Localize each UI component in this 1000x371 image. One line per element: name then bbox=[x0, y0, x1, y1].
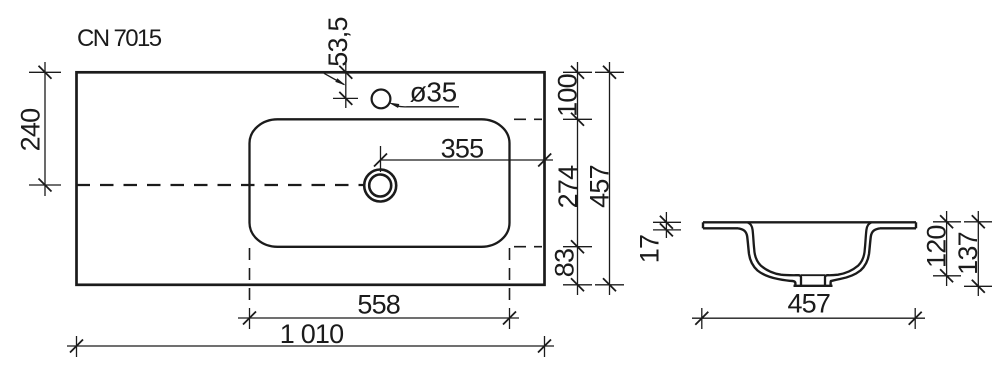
dimension 355 tick left bbox=[374, 154, 387, 167]
svg-text:274: 274 bbox=[553, 165, 583, 208]
drain inner circle bbox=[369, 175, 391, 197]
tick at countertop top bbox=[563, 71, 592, 73]
tick 457 top bbox=[595, 71, 624, 73]
dimension 137 line bbox=[977, 211, 979, 296]
dashed extension below basin left bbox=[249, 248, 251, 308]
faucet leader arrowhead bbox=[388, 103, 399, 109]
side view right flange underside bbox=[880, 227, 916, 229]
tick 558 left bbox=[249, 308, 251, 329]
dashed centerline to drain bbox=[77, 184, 364, 186]
dimension 1010 line bbox=[67, 345, 554, 347]
dimension 53,5 tick bottom bbox=[333, 97, 358, 99]
drain outer circle bbox=[364, 170, 396, 202]
side view inner bowl right bbox=[825, 222, 872, 285]
tick 457 bottom bbox=[595, 284, 624, 286]
side view right end cap bbox=[915, 222, 917, 228]
svg-text:240: 240 bbox=[16, 109, 46, 152]
tick side 457 left bbox=[701, 308, 703, 329]
svg-text:53,5: 53,5 bbox=[323, 17, 353, 66]
tick 1010 left bbox=[76, 336, 78, 357]
dashed extension right of basin top bbox=[514, 118, 542, 120]
svg-text:17: 17 bbox=[635, 235, 665, 263]
dimension 53,5 tick top bbox=[339, 66, 352, 79]
tick at countertop bottom bbox=[563, 284, 592, 286]
side view outer bowl left bbox=[738, 228, 795, 285]
countertop outline (top view) bbox=[77, 72, 545, 284]
svg-text:1 010: 1 010 bbox=[280, 319, 344, 349]
svg-text:457: 457 bbox=[787, 289, 830, 319]
dimension 53,5 line bbox=[345, 63, 347, 108]
side view inner bowl left bbox=[748, 222, 802, 285]
svg-text:100: 100 bbox=[553, 74, 583, 117]
tick side 457 right bbox=[914, 308, 916, 329]
dashed extension right of basin bottom bbox=[514, 246, 542, 248]
faucet hole bbox=[372, 90, 391, 109]
svg-text:137: 137 bbox=[953, 232, 983, 275]
tick 558 right bbox=[509, 308, 511, 329]
side view flange top bbox=[703, 221, 916, 223]
dashed extension below basin right bbox=[509, 248, 511, 308]
dimension 120 line bbox=[946, 211, 948, 286]
dimension 17 line bbox=[665, 212, 667, 238]
svg-text:355: 355 bbox=[441, 134, 484, 164]
svg-text:558: 558 bbox=[357, 290, 400, 320]
side view left flange underside bbox=[703, 227, 738, 229]
dimension 355 tick right bbox=[544, 150, 546, 170]
side view foot bottom bbox=[794, 285, 833, 287]
dimension 17 tick bottom bbox=[653, 229, 681, 231]
dimension 137 tick bottom bbox=[964, 285, 992, 287]
side view left end cap bbox=[702, 222, 704, 228]
basin rounded rectangle (top view) bbox=[250, 119, 510, 247]
svg-text:457: 457 bbox=[585, 165, 615, 208]
tick 1010 right bbox=[544, 336, 546, 357]
dimension 558 line bbox=[238, 317, 519, 319]
dimension 137 tick top bbox=[964, 221, 992, 223]
tick at basin bottom bbox=[563, 246, 592, 248]
dimension 17 tick top bbox=[653, 221, 681, 223]
dimension 53,5 arrow bbox=[324, 73, 344, 84]
svg-text:83: 83 bbox=[550, 249, 580, 277]
faucet leader line bbox=[396, 106, 459, 107]
right dimension line (100/274/83) bbox=[577, 62, 579, 295]
dimension 457 line (side view) bbox=[692, 317, 925, 319]
dimension 240 tick top bbox=[29, 71, 61, 73]
dimension 240 line bbox=[44, 62, 46, 196]
dimension 355 extension at drain bbox=[380, 146, 382, 172]
dimension 120 tick top bbox=[933, 221, 961, 223]
svg-text:120: 120 bbox=[922, 225, 952, 268]
dimension 240 tick bottom bbox=[29, 184, 61, 186]
tick at basin top bbox=[563, 118, 592, 120]
svg-text:CN 7015: CN 7015 bbox=[77, 25, 162, 52]
side view outer bowl right bbox=[831, 228, 880, 285]
side view foot top line bbox=[801, 274, 825, 276]
dimension 355 line bbox=[381, 159, 554, 161]
dimension 457 line (top view) bbox=[609, 62, 611, 295]
dimension 120 tick bottom bbox=[933, 275, 961, 277]
svg-text:ø35: ø35 bbox=[410, 77, 457, 108]
